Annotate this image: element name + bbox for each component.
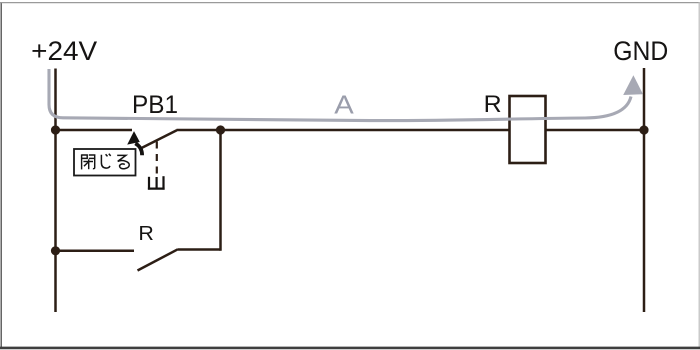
callout text る (drawn) [117, 155, 129, 168]
gray current path A [49, 69, 631, 121]
wire rung2 left segment [56, 250, 135, 253]
junction node dot (left, rung1) [51, 125, 60, 134]
svg-text:GND: GND [613, 36, 668, 66]
junction node dot (riser, rung1) [216, 125, 225, 134]
relay coil R box [510, 96, 546, 163]
wire right rail [643, 68, 646, 312]
callout text 閉 (drawn) [82, 154, 95, 169]
svg-text:+24V: +24V [31, 35, 98, 66]
svg-text:PB1: PB1 [132, 92, 178, 119]
svg-text:R: R [484, 91, 502, 118]
callout box 閉じる [74, 149, 136, 176]
gray arrowhead [623, 75, 643, 95]
wire rung2 right segment [178, 248, 221, 251]
pushbutton PB1 manual operator symbol [148, 176, 165, 189]
pushbutton PB1 blade [141, 130, 177, 148]
wire rung1 left segment [56, 129, 133, 132]
wire rung2 riser [219, 130, 222, 251]
contact R blade [138, 249, 179, 270]
wire rung1 middle segment [177, 129, 511, 132]
junction node dot (right rail, rung1) [639, 125, 648, 134]
wire rung1 right segment [545, 129, 644, 132]
callout text じ (drawn) [101, 154, 110, 168]
junction node dot (left, rung2) [51, 246, 60, 255]
wire left rail [54, 69, 57, 313]
arrow from callout to PB1 [135, 143, 142, 155]
pushbutton PB1 dashed actuator link [156, 142, 158, 174]
svg-text:A: A [334, 92, 354, 120]
svg-text:R: R [138, 223, 154, 245]
